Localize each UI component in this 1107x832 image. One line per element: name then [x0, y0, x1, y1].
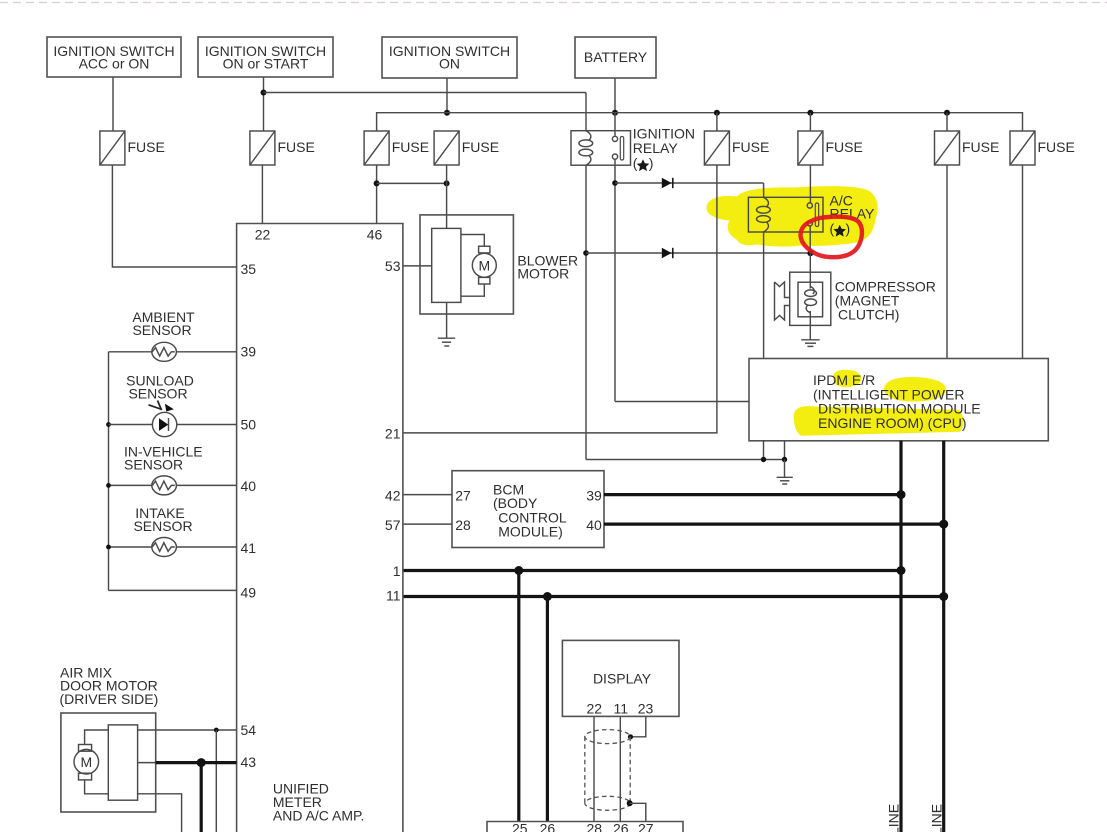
svg-text:(: ( — [830, 221, 835, 237]
box IGNITION SWITCH ACC or ON — [47, 37, 181, 77]
svg-text:39: 39 — [241, 344, 257, 360]
svg-text:): ) — [846, 221, 851, 237]
svg-text:LINE: LINE — [886, 804, 902, 832]
svg-text:53: 53 — [385, 258, 401, 274]
svg-text:26: 26 — [540, 821, 556, 832]
svg-text:40: 40 — [586, 517, 602, 533]
wire pin 43 inner — [138, 762, 156, 764]
svg-text:M: M — [478, 258, 490, 274]
box IGNITION SWITCH ON — [382, 37, 517, 78]
wire tap to fuse F4 — [809, 113, 811, 131]
wire fuse F1 to pin 35 — [112, 165, 236, 267]
wire pin 53 to blower — [403, 265, 432, 267]
bottom connector box — [487, 822, 683, 832]
photodiode sunload sensor — [109, 424, 153, 426]
svg-text:43: 43 — [241, 754, 257, 770]
wire A/C relay contact to node — [809, 226, 811, 253]
svg-text:23: 23 — [638, 701, 654, 717]
node IGN-ON at top bus — [444, 110, 450, 116]
wire BCM 40 CAN thick — [604, 522, 944, 525]
svg-text:FUSE: FUSE — [962, 139, 999, 155]
wire ignition relay coil down — [585, 165, 587, 459]
wire display 23 to shield — [631, 716, 646, 736]
diode D2 — [662, 248, 672, 258]
sensor feed bus left — [108, 352, 110, 591]
wire coil return to ground row — [586, 459, 785, 461]
svg-text:ON or START: ON or START — [223, 56, 309, 72]
fuse F1 — [100, 131, 125, 165]
wire IPDM bottom pin b — [784, 441, 786, 460]
wire fuse F6 to IPDM — [1022, 165, 1024, 359]
svg-text:1: 1 — [393, 563, 401, 579]
wire ON-or-START box down through node — [263, 77, 265, 131]
box BATTERY — [575, 37, 656, 78]
wire ON-or-START net horizontal — [264, 92, 587, 94]
thermistor intake sensor — [109, 546, 153, 548]
decorative top dashed line — [0, 2, 1107, 4]
wire fuse F4a to blower — [446, 165, 448, 228]
node BCM40 to CAN2 — [939, 520, 948, 529]
fuse F3a — [364, 131, 389, 165]
wire down to A/C relay coil — [763, 183, 765, 197]
wire BCM 39 CAN thick — [604, 493, 901, 496]
svg-text:42: 42 — [385, 488, 401, 504]
svg-text:SENSOR: SENSOR — [124, 456, 183, 472]
wire IPDM CAN line 2 thick — [942, 441, 945, 832]
node fuse F3a row — [374, 180, 380, 186]
wire resistor to motor top — [461, 235, 484, 247]
thermistor ambient sensor — [109, 351, 153, 353]
wire relay contact net to IPDM left pin — [615, 401, 749, 403]
wire display 22 down — [593, 716, 595, 821]
svg-text:MOTOR: MOTOR — [517, 265, 569, 281]
shield cylinder dashed — [585, 730, 630, 811]
air mix door motor box — [61, 713, 156, 812]
wire drop 26 thick — [546, 597, 549, 822]
node fuse F5 tap — [944, 110, 950, 116]
node on ON-or-START wire — [261, 90, 267, 96]
node fuse F4 tap — [807, 110, 813, 116]
red marker circle around A/C relay star — [801, 217, 862, 258]
motor air mix M — [74, 745, 99, 780]
star mark on ignition relay — [637, 159, 650, 171]
wire fuse F3a down — [376, 165, 378, 224]
svg-text:22: 22 — [255, 227, 271, 243]
box DISPLAY — [562, 640, 679, 716]
wire fuse F3 down to pin 21 — [403, 165, 717, 433]
wire ignition relay contact down — [614, 159, 616, 401]
thermistor in-vehicle sensor — [109, 484, 153, 486]
wire pin54 drop down — [215, 730, 217, 832]
wire ground stem — [784, 460, 786, 478]
svg-text:CLUTCH): CLUTCH) — [838, 307, 899, 323]
node shield top — [628, 734, 633, 739]
diode D1 — [662, 178, 672, 188]
svg-text:28: 28 — [587, 821, 603, 832]
svg-text:40: 40 — [241, 478, 257, 494]
node fuse F3 tap — [714, 110, 720, 116]
svg-text:M: M — [80, 754, 92, 770]
fuse F5 — [935, 131, 960, 165]
node fuse F4a row — [444, 180, 450, 186]
svg-text:ENGINE ROOM) (CPU): ENGINE ROOM) (CPU) — [818, 415, 967, 431]
svg-text:41: 41 — [241, 540, 257, 556]
svg-text:46: 46 — [367, 227, 383, 243]
svg-text:): ) — [649, 155, 654, 171]
relay K2 A/C relay — [748, 197, 823, 232]
svg-text:50: 50 — [241, 417, 257, 433]
svg-text:25: 25 — [512, 821, 528, 832]
wire blower to ground — [446, 302, 448, 338]
box UNIFIED METER AND A/C AMP — [237, 224, 403, 832]
wire tap to fuse F3 — [716, 113, 718, 131]
wire air mix third lead — [138, 794, 182, 832]
node A/C relay contact output — [807, 250, 813, 256]
ground blower — [438, 338, 455, 346]
svg-text:49: 49 — [241, 585, 257, 601]
node shield bottom — [627, 800, 633, 806]
wire tap to fuse F5 — [946, 113, 948, 131]
wire amp pin 11 CAN thick — [403, 595, 944, 598]
svg-text:SENSOR: SENSOR — [132, 322, 191, 338]
fuse F3 — [704, 131, 729, 165]
node pin 43 drop — [197, 758, 206, 767]
compressor magnet clutch M1 — [775, 272, 831, 325]
wire pin 54 — [138, 729, 237, 731]
wire fuse F5 to IPDM — [946, 165, 948, 359]
svg-text:27: 27 — [455, 488, 471, 504]
wire top supply bus — [377, 113, 1023, 131]
node pin1 drop — [514, 566, 523, 575]
blower motor box — [420, 215, 513, 314]
wire down to ignition relay coil — [585, 93, 587, 132]
highlight blob over IPDM E/R word — [833, 370, 861, 387]
node pin11 CAN2 — [939, 592, 948, 601]
svg-text:AND A/C AMP.: AND A/C AMP. — [273, 808, 365, 824]
svg-text:FUSE: FUSE — [826, 139, 863, 155]
fuse F4a — [434, 131, 459, 165]
fuse F2 — [250, 131, 275, 165]
node pin 54 drop — [214, 728, 219, 733]
wire IPDM bottom pin a — [763, 441, 765, 460]
wire fuse F2 to pin 22 — [261, 165, 263, 224]
wire element to motor top — [85, 730, 109, 745]
svg-text:11: 11 — [386, 588, 401, 604]
wire shield to connector — [630, 803, 646, 821]
node pin11 drop — [543, 592, 552, 601]
svg-text:57: 57 — [385, 517, 401, 533]
wire fuse F4 to A/C relay contact — [809, 165, 811, 203]
node ground row a — [761, 457, 766, 462]
wire compressor to ground — [809, 325, 811, 339]
svg-text:FUSE: FUSE — [278, 139, 315, 155]
svg-text:FUSE: FUSE — [1038, 139, 1075, 155]
svg-text:BATTERY: BATTERY — [584, 49, 648, 65]
wire resistor to motor bottom — [461, 284, 484, 296]
svg-text:MODULE): MODULE) — [498, 524, 563, 540]
svg-text:39: 39 — [586, 488, 602, 504]
box IGNITION SWITCH ON or START — [198, 37, 333, 77]
wire A/C relay coil to IPDM — [763, 232, 765, 359]
svg-text:ACC or ON: ACC or ON — [79, 56, 150, 72]
svg-text:RELAY: RELAY — [633, 140, 679, 156]
wire fuse link row — [377, 182, 447, 184]
motor blower M — [472, 246, 496, 284]
ground compressor — [801, 340, 819, 347]
box BCM — [452, 471, 604, 548]
wire node to compressor — [809, 253, 811, 272]
svg-text:FUSE: FUSE — [732, 139, 769, 155]
wire IPDM CAN line 1 thick — [899, 441, 902, 832]
wire pin43 drop down thick — [200, 763, 203, 832]
svg-text:LINE: LINE — [928, 804, 944, 832]
star mark on A/C relay — [833, 225, 846, 237]
svg-text:(: ( — [633, 155, 638, 171]
wire display 11 down — [619, 716, 621, 821]
relay K1 ignition relay — [571, 113, 631, 166]
svg-text:21: 21 — [385, 426, 401, 442]
node blower junction on coil return — [583, 250, 589, 256]
svg-text:ON: ON — [439, 56, 460, 72]
svg-text:26: 26 — [613, 821, 629, 832]
svg-text:54: 54 — [241, 722, 257, 738]
wire amp pin 1 CAN thick — [403, 569, 901, 572]
wire amp 57 to BCM 28 — [403, 523, 452, 525]
svg-text:27: 27 — [638, 821, 654, 832]
wire diode D1 row — [615, 182, 764, 184]
svg-text:28: 28 — [455, 517, 471, 533]
node sunload tap — [106, 422, 111, 427]
wire diode D2 row — [586, 252, 810, 254]
node BCM39 to CAN1 — [897, 490, 906, 499]
wire pin 43 thick — [156, 761, 237, 764]
svg-text:22: 22 — [587, 701, 603, 717]
highlight swath over ENGINE ROOM CPU — [794, 406, 964, 436]
node ground row b — [782, 457, 787, 462]
blower resistor element — [432, 228, 461, 302]
svg-text:35: 35 — [241, 261, 257, 277]
svg-text:SENSOR: SENSOR — [128, 386, 187, 402]
node pin1 CAN1 — [897, 566, 906, 575]
svg-text:FUSE: FUSE — [128, 139, 165, 155]
wire IGNITION-SWITCH-ON box down — [446, 78, 448, 113]
air mix position element — [108, 725, 137, 800]
highlight blob over INTELLIGENT POWER — [884, 377, 946, 402]
wire sensor bus to pin 49 — [109, 589, 237, 591]
svg-text:FUSE: FUSE — [462, 139, 499, 155]
node relay output at diode line — [612, 180, 618, 186]
ground IPDM — [777, 477, 793, 484]
light arrow sunload — [149, 401, 163, 411]
svg-text:FUSE: FUSE — [392, 139, 429, 155]
wire element to motor bottom — [85, 780, 109, 794]
svg-text:DISPLAY: DISPLAY — [593, 671, 652, 687]
fuse F6 — [1010, 131, 1035, 165]
wire drop 25 thick — [517, 571, 520, 822]
node BATTERY at top bus — [612, 110, 618, 116]
wire BATTERY down — [614, 78, 616, 113]
wire amp 42 to BCM 27 — [403, 494, 452, 496]
highlight blob over A/C relay — [706, 186, 877, 246]
svg-text:11: 11 — [614, 701, 629, 717]
wire ACC box to fuse F1 — [112, 77, 114, 131]
box IPDM E/R U1 — [749, 359, 1048, 441]
svg-text:(DRIVER SIDE): (DRIVER SIDE) — [60, 691, 159, 707]
svg-text:SENSOR: SENSOR — [133, 518, 192, 534]
fuse F4 — [798, 131, 823, 165]
